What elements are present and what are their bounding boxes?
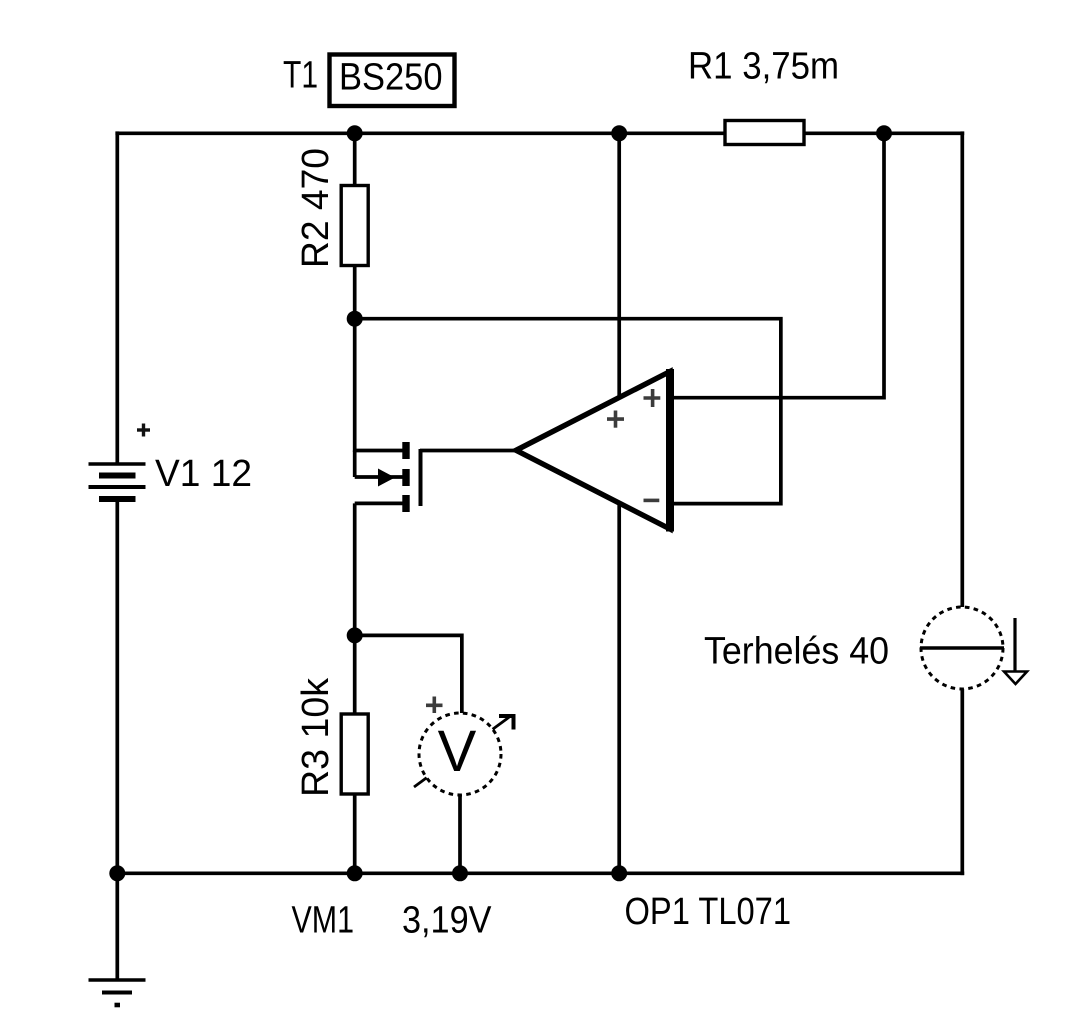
svg-text:R2 470: R2 470: [295, 148, 337, 268]
svg-text:OP1 TL071: OP1 TL071: [625, 891, 792, 933]
svg-text:VM1: VM1: [292, 900, 355, 942]
svg-text:T1: T1: [283, 55, 318, 97]
svg-text:V1 12: V1 12: [155, 453, 252, 495]
svg-text:3,19V: 3,19V: [402, 900, 492, 942]
svg-text:Terhelés 40: Terhelés 40: [704, 631, 889, 673]
svg-text:BS250: BS250: [339, 57, 443, 99]
svg-text:R3 10k: R3 10k: [295, 677, 337, 797]
svg-text:V: V: [438, 719, 477, 784]
svg-text:R1 3,75m: R1 3,75m: [688, 46, 839, 88]
